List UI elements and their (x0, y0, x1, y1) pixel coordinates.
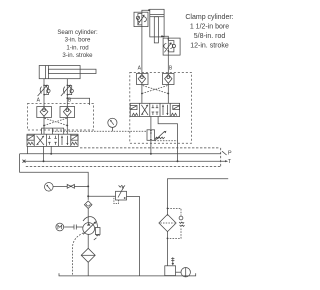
pilot gauge line (dashed) (52, 130, 147, 132)
pilot crossover lines (dashed X) (44, 118, 67, 126)
spool box 1: crossed arrows (37, 136, 44, 145)
pilot drain of RV2 (dashed then down) (155, 140, 178, 142)
breather arrow above diffuser (171, 257, 174, 265)
pump compensator (83, 217, 100, 240)
wire DCV1 T port to drain line (27, 146, 29, 153)
svg-text:T: T (228, 159, 232, 165)
pilot crossover lines clamp (dashed X) (142, 85, 168, 93)
wire A line down to check module (43, 95, 45, 107)
return header line (168, 179, 229, 216)
pressure gauge G1 (45, 183, 54, 192)
wire filter to tank box (167, 232, 169, 266)
cylinder CYL1 seam (horizontal) (39, 66, 96, 79)
wire DCV2 T port jog down (158, 117, 177, 162)
spool box 1: crossed arrows (141, 105, 148, 115)
diffuser box on tank (165, 266, 176, 276)
flow control valve FC-A (meter with bypass check) (38, 85, 51, 97)
wire rod-end port of CYL1 (66, 79, 68, 86)
wire CYL2 cap port to FC1 (142, 10, 150, 12)
wire RV1 outlet to tank (127, 196, 140, 276)
pressure reducing valve RV2 (147, 129, 166, 140)
manifold P rail (20, 153, 221, 155)
left solenoid (130, 105, 137, 109)
svg-text:Seam cylinder:: Seam cylinder: (57, 29, 98, 36)
wire gauge to needle valve (53, 185, 67, 187)
directional valve DCV2 (4/3 solenoid) (130, 103, 179, 116)
spool box 3: parallel arrows (163, 105, 167, 115)
svg-text:A: A (37, 97, 41, 103)
svg-text:P: P (228, 151, 232, 157)
wire checks to valve DCV2 (141, 85, 143, 104)
return filter F2 (159, 214, 176, 231)
wire FC2 down to node B (clamp) (167, 55, 169, 73)
right solenoid (71, 135, 78, 140)
svg-text:B: B (169, 65, 173, 71)
drain right edge drop (dashed) (220, 148, 222, 167)
pilot check valve CV-D (clamp B) (163, 74, 175, 85)
pilot check valve CV-A (37, 107, 52, 118)
pilot check valve CV-C (clamp A) (137, 74, 149, 85)
wire DCV1 P port to P line (50, 146, 52, 153)
pump P1 (variable displacement) (83, 221, 96, 234)
manifold T rail with plug (24, 160, 226, 162)
spool box 2: blocked center (152, 105, 159, 115)
wire FC1 down to node A (clamp) (141, 27, 143, 74)
relief valve RV1 (114, 185, 127, 203)
motor shaft coupling (64, 225, 83, 230)
wire needle valve to pump riser (74, 185, 88, 187)
tank line (59, 273, 196, 276)
filter bypass check (dashed branch) (167, 208, 185, 240)
left solenoid (27, 135, 34, 140)
clamp station enclosure (dashed) (130, 72, 192, 143)
needle valve NV1 (67, 184, 74, 188)
flow control valve FC-B (meter with bypass check) (61, 85, 74, 97)
right solenoid (173, 105, 180, 109)
directional valve DCV1 (4/3 solenoid) (27, 134, 78, 146)
svg-text:3-in. bore: 3-in. bore (65, 37, 91, 44)
wire pump to filter and filter to tank (87, 234, 89, 248)
svg-text:5/8-in. rod: 5/8-in. rod (194, 33, 226, 40)
electric motor M1 (56, 223, 64, 231)
valve drain header (dashed) (80, 147, 220, 149)
svg-text:1 1/2-in bore: 1 1/2-in bore (190, 24, 229, 31)
wire relief feed branch (88, 195, 115, 197)
svg-text:1-in. rod: 1-in. rod (66, 44, 88, 51)
wire check to pump (87, 209, 89, 223)
suction filter F1 (81, 248, 95, 262)
pressure gauge G2 (pilot line gauge) (108, 118, 117, 131)
pilot check valve CV-B (60, 107, 75, 118)
temperature/level gauge G3 (176, 268, 191, 277)
clamp cylinder text label (185, 14, 233, 50)
svg-text:3-in. stroke: 3-in. stroke (62, 52, 93, 59)
pump pressure feed path (up x19.6, along y172.3, from pump riser) (20, 154, 89, 200)
wire DCV2 P port down into reducing valve (150, 117, 152, 130)
wire RV2 outlet to P line (150, 141, 152, 154)
check valve CK1 (pump outlet) (84, 201, 92, 209)
pump case drain (dashed) (73, 233, 84, 276)
svg-text:Clamp cylinder:: Clamp cylinder: (185, 14, 233, 21)
spool box 2: blocked center (48, 136, 57, 145)
flow control valve FC1 (clamp cap side, boxed) (134, 12, 148, 26)
cylinder CYL2 clamp (vertical) (150, 9, 164, 43)
wire CYL2 rod port to FC2 (161, 36, 168, 38)
seam cylinder text label (57, 29, 98, 59)
manifold drain rail (dashed) (26, 166, 220, 168)
svg-text:A: A (138, 65, 142, 71)
wire cap-end port of CYL1 (43, 79, 45, 86)
wire B branch jog into module right side (67, 98, 89, 105)
P exit jog and label (222, 151, 227, 155)
valve top cap bracket (42, 128, 64, 134)
wire B line down to check module (66, 95, 68, 107)
wire check outputs to valve DCV1 (43, 118, 45, 135)
spool box 3: parallel arrows (62, 136, 67, 145)
svg-text:12-in. stroke: 12-in. stroke (190, 43, 229, 50)
flow control valve FC2 (clamp rod side, boxed) (163, 38, 180, 55)
wire DCV1 gauge port to T line (43, 146, 45, 161)
pilot-operated check module enclosure (dashed) (28, 104, 94, 131)
